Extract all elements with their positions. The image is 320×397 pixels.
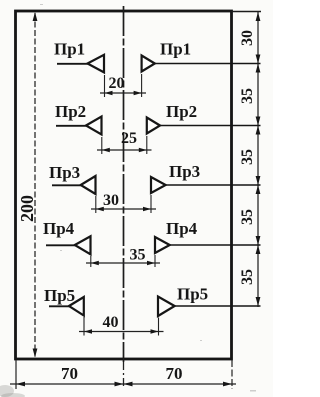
svg-text:Пр1: Пр1 — [160, 40, 191, 59]
bottom extension line right — [231, 360, 233, 389]
row 2 left lead wire — [56, 125, 87, 127]
svg-text:35: 35 — [239, 209, 256, 225]
right dim arrows — [256, 12, 261, 21]
dimension 200 line — [34, 13, 36, 357]
dimension 40 line — [79, 331, 164, 333]
main rectangle outline — [16, 11, 232, 359]
row 1 left lead wire — [57, 63, 88, 65]
svg-text:25: 25 — [121, 130, 137, 147]
row 4 left lead wire — [46, 244, 76, 246]
bottom dimension line — [10, 383, 236, 385]
svg-text:Пр2: Пр2 — [166, 102, 197, 121]
row 4 right triangle — [155, 237, 170, 253]
row 1 right lead wire to right dim line — [154, 63, 261, 65]
dimension 25 line — [97, 149, 152, 151]
dimension 20 line — [100, 92, 146, 94]
svg-text:20: 20 — [109, 75, 125, 92]
row 5 left lead wire — [49, 305, 70, 307]
svg-text:40: 40 — [103, 314, 119, 331]
row 3 left lead wire — [52, 184, 82, 186]
row 2 left triangle — [86, 117, 102, 135]
svg-text:35: 35 — [130, 247, 146, 264]
svg-text:35: 35 — [239, 269, 256, 285]
dimension 20 extension ticks — [104, 75, 106, 97]
centerline extension below — [123, 362, 125, 387]
svg-text:35: 35 — [239, 149, 256, 165]
row 2 right lead wire — [159, 125, 261, 127]
svg-text:Пр2: Пр2 — [55, 102, 86, 121]
svg-text:Пр5: Пр5 — [44, 286, 75, 305]
row 3 right lead wire — [165, 184, 261, 186]
dimension 30 line — [91, 208, 156, 210]
row 5 left triangle — [69, 297, 84, 316]
dimension 30 extension ticks — [95, 196, 97, 213]
top edge extension to right dim line — [232, 11, 262, 13]
svg-text:30: 30 — [103, 192, 119, 209]
dimension 35 extension ticks — [90, 256, 92, 267]
row 3 right triangle — [151, 177, 166, 193]
dimension 25 extension ticks — [101, 137, 103, 154]
bottom dim arrows — [16, 382, 25, 387]
row 5 right triangle — [158, 297, 175, 317]
centerline — [123, 6, 125, 362]
svg-text:30: 30 — [239, 30, 256, 46]
svg-text:Пр5: Пр5 — [177, 285, 208, 304]
svg-text:70: 70 — [61, 364, 78, 383]
svg-text:Пр3: Пр3 — [49, 163, 80, 182]
row 1 left triangle — [88, 55, 105, 73]
row 3 left triangle — [81, 176, 96, 194]
scan speckles — [40, 4, 256, 392]
row 2 right triangle — [147, 118, 160, 134]
bottom extension line left — [15, 360, 17, 389]
row 5 right lead wire — [174, 305, 261, 307]
row 4 right lead wire — [169, 244, 261, 246]
dimension 35 line — [86, 262, 160, 264]
row 4 left triangle — [75, 236, 91, 254]
row 1 right triangle — [142, 56, 155, 72]
svg-text:200: 200 — [17, 195, 37, 222]
scan smudge bottom-left — [0, 385, 14, 397]
dimension 200 arrow bottom — [33, 349, 38, 358]
svg-text:70: 70 — [166, 364, 183, 383]
svg-text:Пр4: Пр4 — [166, 219, 198, 238]
svg-text:Пр3: Пр3 — [169, 162, 200, 181]
dimension 200 arrow top — [33, 12, 38, 21]
svg-text:Пр4: Пр4 — [43, 219, 75, 238]
dimension 40 extension ticks — [83, 317, 85, 336]
svg-text:35: 35 — [239, 88, 256, 104]
right dimension line vertical — [257, 12, 259, 308]
svg-text:Пр1: Пр1 — [54, 40, 85, 59]
